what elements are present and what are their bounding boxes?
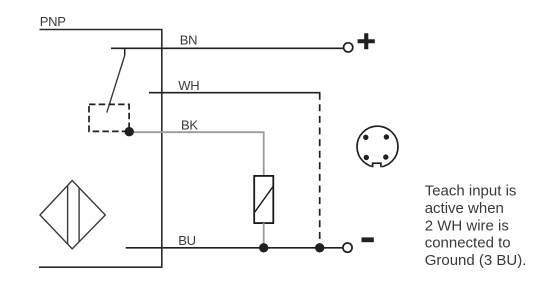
svg-text:BN: BN bbox=[180, 32, 197, 47]
optical sensor diamond bbox=[40, 181, 105, 249]
svg-text:BU: BU bbox=[178, 233, 195, 248]
switch lever Q1 bbox=[107, 56, 125, 113]
switch contact tick bbox=[124, 48, 126, 55]
connector pin 2 bbox=[384, 134, 389, 139]
minus sign bbox=[362, 237, 374, 242]
svg-text:WH: WH bbox=[178, 78, 199, 93]
svg-text:PNP: PNP bbox=[40, 14, 66, 29]
connector pin 4 bbox=[383, 154, 388, 159]
minus terminal circle bbox=[343, 243, 352, 252]
svg-text:BK: BK bbox=[181, 117, 198, 132]
wire BU bbox=[126, 247, 343, 249]
connector pin 3 bbox=[364, 155, 369, 160]
plus terminal circle bbox=[344, 43, 353, 52]
resistor diagonal bbox=[255, 187, 273, 212]
resistor bottom lead (gray) bbox=[263, 223, 265, 248]
diamond inner line 2 bbox=[78, 188, 80, 242]
node BK junction bbox=[125, 127, 134, 136]
wire BN bbox=[111, 47, 343, 49]
diamond inner line 1 bbox=[67, 185, 69, 244]
plus sign bbox=[358, 33, 375, 49]
M12 connector face bbox=[357, 126, 398, 169]
teach connection dashed drop wire bbox=[319, 93, 321, 248]
svg-text:Teach input is active when: Teach input is active when 2 WH wire is … bbox=[425, 183, 527, 270]
load resistor R bbox=[254, 176, 273, 223]
wire WH bbox=[149, 92, 321, 94]
wire BK (gray) bbox=[129, 132, 264, 176]
teach actuator dashed box bbox=[89, 104, 129, 131]
connector pin 1 bbox=[363, 135, 368, 140]
node BU-resistor junction bbox=[259, 243, 268, 252]
node BU-teach junction bbox=[315, 243, 324, 252]
sensor body outline (open left) bbox=[39, 30, 162, 268]
